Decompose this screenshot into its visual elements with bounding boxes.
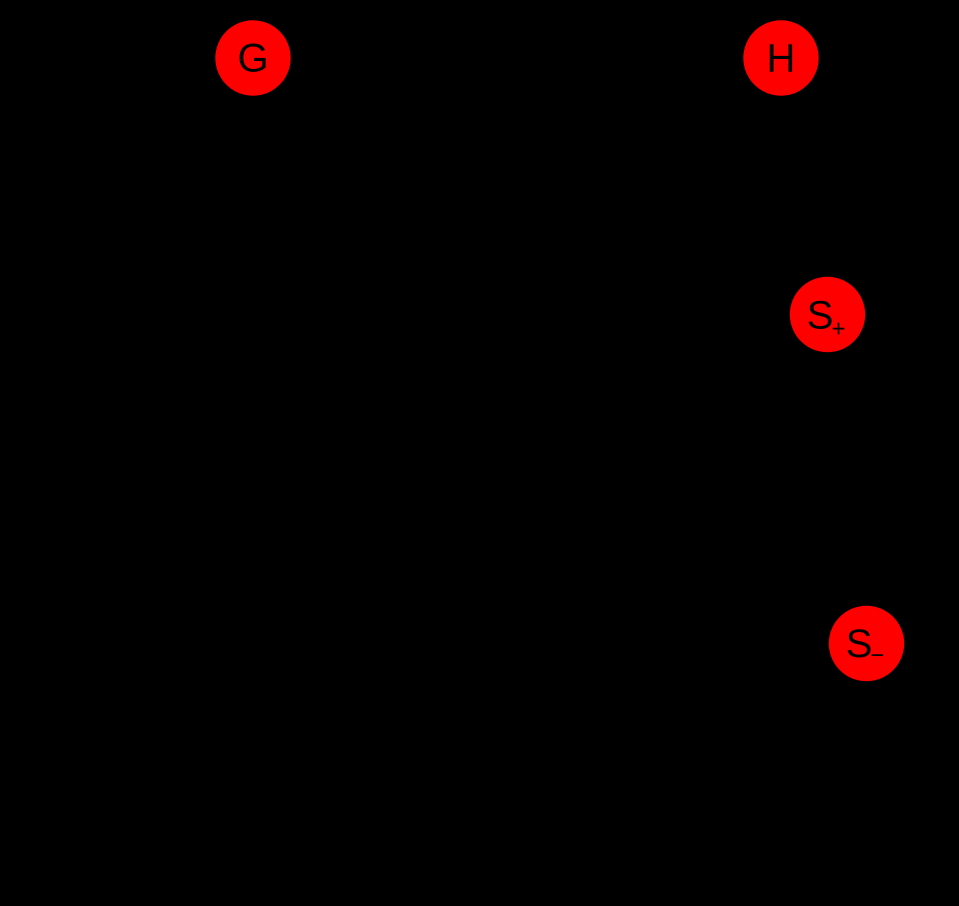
node S- [829, 606, 904, 681]
node H [743, 20, 818, 95]
node S+ [790, 277, 865, 352]
edge H to S+ [795, 96, 817, 278]
svg-text:S: S [807, 294, 834, 338]
edge G to H [293, 57, 741, 59]
svg-text:G: G [237, 37, 268, 81]
svg-text:S: S [846, 622, 873, 666]
svg-text:−: − [870, 642, 884, 669]
svg-text:+: + [832, 316, 846, 343]
node G [215, 20, 290, 95]
edge S+ to S- [832, 355, 862, 603]
svg-text:H: H [767, 37, 796, 81]
